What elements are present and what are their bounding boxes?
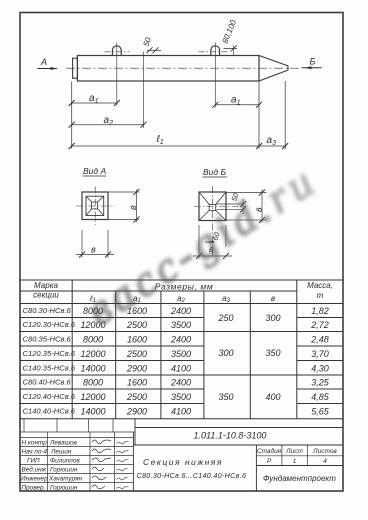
svg-text:1: 1	[293, 458, 297, 465]
svg-text:Вид А: Вид А	[83, 166, 106, 176]
small dim 50 right of centre	[217, 203, 245, 205]
svg-text:А: А	[40, 57, 47, 67]
watermark	[79, 155, 327, 335]
svg-text:Масса,: Масса,	[307, 281, 333, 290]
svg-text:1600: 1600	[127, 335, 147, 345]
svg-text:С120.30-НСв.6: С120.30-НСв.6	[23, 320, 76, 329]
svg-text:Инженер: Инженер	[21, 475, 48, 482]
svg-text:в: в	[91, 245, 96, 255]
svg-text:2,72: 2,72	[310, 320, 329, 330]
svg-text:2900: 2900	[126, 364, 147, 374]
svg-text:Б: Б	[310, 57, 316, 67]
dim labels	[89, 93, 276, 147]
extension taper start	[258, 82, 260, 149]
dim ticks	[69, 100, 289, 149]
svg-text:Хачатурян: Хачатурян	[48, 475, 83, 482]
svg-text:Фундаментпроект: Фундаментпроект	[263, 474, 336, 483]
svg-text:400: 400	[265, 392, 280, 402]
svg-text:Горюшин: Горюшин	[50, 484, 78, 491]
header texts	[33, 281, 333, 304]
right section	[255, 445, 257, 491]
svg-text:С140.40-НСв.6: С140.40-НСв.6	[23, 407, 76, 416]
svg-text:m: m	[317, 291, 324, 300]
TABLE	[20, 280, 343, 419]
svg-text:4,85: 4,85	[311, 392, 330, 402]
svg-text:2500: 2500	[126, 349, 147, 359]
svg-text:Вед.инж: Вед.инж	[22, 465, 47, 473]
svg-text:5,65: 5,65	[311, 407, 330, 417]
svg-text:Марка: Марка	[34, 281, 58, 290]
svg-text:2400: 2400	[170, 335, 191, 345]
svg-text:2500: 2500	[126, 320, 147, 330]
dim 50 at loop1	[142, 36, 161, 128]
svg-text:С120.40-НСв.6: С120.40-НСв.6	[23, 392, 76, 401]
extension tip	[284, 81, 286, 149]
dim a1 left	[72, 102, 117, 104]
svg-text:Листов: Листов	[312, 448, 337, 455]
svg-text:С140.35-НСв.6: С140.35-НСв.6	[23, 364, 76, 373]
svg-text:3500: 3500	[171, 349, 191, 359]
left roles and names	[21, 439, 83, 491]
svg-text:Горюшин: Горюшин	[50, 466, 78, 473]
svg-text:Стадия: Стадия	[257, 447, 282, 455]
svg-text:8000: 8000	[83, 335, 103, 345]
svg-text:2400: 2400	[170, 378, 191, 388]
dim a2	[72, 124, 144, 126]
view arrow B	[302, 57, 322, 70]
svg-text:3,25: 3,25	[311, 378, 330, 388]
svg-text:2400: 2400	[170, 306, 191, 316]
dim l1 + a3	[72, 145, 286, 147]
pile head cap	[73, 58, 78, 78]
svg-text:4100: 4100	[171, 407, 191, 417]
svg-text:350: 350	[265, 348, 280, 358]
svg-text:Вид Б: Вид Б	[203, 167, 226, 177]
TITLE BLOCK	[20, 419, 343, 492]
left rows	[20, 437, 133, 439]
dim 80,100 at loop2	[221, 18, 239, 55]
svg-text:1.011.1-10.8-3100: 1.011.1-10.8-3100	[194, 431, 267, 441]
svg-text:3500: 3500	[171, 392, 191, 402]
data rows	[23, 306, 76, 416]
right dim b	[109, 191, 140, 193]
pile centerline	[66, 67, 301, 69]
svg-text:Секция нижняя: Секция нижняя	[143, 457, 223, 467]
svg-text:14000: 14000	[80, 364, 105, 374]
svg-text:3500: 3500	[171, 320, 191, 330]
svg-text:4,30: 4,30	[311, 364, 329, 374]
svg-text:С80.30-НСв.6...С140.40-НСв.6: С80.30-НСв.6...С140.40-НСв.6	[137, 471, 247, 480]
svg-text:350: 350	[218, 392, 233, 402]
svg-text:300: 300	[265, 313, 280, 323]
svg-text:2500: 2500	[126, 392, 147, 402]
svg-text:Нач.по-4: Нач.по-4	[22, 448, 48, 455]
svg-text:1600: 1600	[127, 378, 147, 388]
svg-text:С80.30-НСв.6: С80.30-НСв.6	[23, 306, 72, 315]
svg-text:Провер.: Провер.	[22, 484, 46, 491]
svg-text:8000: 8000	[83, 378, 103, 388]
svg-text:Левашов: Левашов	[49, 439, 78, 446]
svg-text:С80.35-НСв.6: С80.35-НСв.6	[23, 335, 72, 344]
pile tip taper	[259, 56, 288, 82]
svg-text:Филиппов: Филиппов	[50, 457, 80, 464]
svg-text:12000: 12000	[80, 349, 105, 359]
svg-text:Размеры, мм: Размеры, мм	[155, 282, 214, 292]
bottom dims	[198, 225, 200, 259]
svg-text:14000: 14000	[80, 407, 105, 417]
title block grid	[20, 419, 343, 491]
svg-text:Р: Р	[267, 458, 272, 465]
PILE SIDE VIEW	[66, 43, 301, 108]
svg-text:С120.35-НСв.6: С120.35-НСв.6	[23, 349, 76, 358]
stage table	[257, 447, 338, 465]
dimension lines below pile	[72, 81, 286, 149]
svg-text:Н.контр: Н.контр	[22, 439, 48, 446]
svg-text:Лешин: Лешин	[50, 448, 72, 455]
lifting loop 2	[211, 46, 220, 56]
svg-text:в: в	[128, 205, 138, 210]
VIEW A	[76, 166, 140, 258]
svg-text:в: в	[271, 294, 275, 303]
svg-text:12000: 12000	[80, 392, 105, 402]
svg-text:ГИП: ГИП	[27, 457, 40, 464]
svg-text:8000: 8000	[83, 306, 103, 316]
right dim b	[227, 192, 267, 194]
svg-text:Лист: Лист	[285, 448, 303, 455]
svg-text:250: 250	[217, 313, 233, 323]
bottom dim b	[81, 230, 83, 258]
svg-text:2900: 2900	[126, 407, 147, 417]
lifting loop 1	[112, 46, 121, 56]
svg-text:12000: 12000	[80, 320, 105, 330]
svg-text:секции: секции	[33, 291, 59, 300]
svg-text:300: 300	[218, 348, 233, 358]
svg-text:1600: 1600	[127, 306, 147, 316]
pile body	[77, 56, 259, 82]
svg-text:4: 4	[323, 458, 327, 465]
signatures	[92, 440, 129, 489]
svg-text:С80.40-НСв.6: С80.40-НСв.6	[23, 378, 72, 387]
svg-text:2,48: 2,48	[310, 335, 329, 345]
table grid	[20, 280, 343, 419]
view arrow A	[37, 57, 57, 70]
extension left end	[71, 82, 73, 149]
svg-text:3,70: 3,70	[311, 349, 329, 359]
dim a1 right	[215, 104, 259, 106]
svg-text:1,82: 1,82	[311, 306, 329, 316]
svg-text:4100: 4100	[171, 364, 191, 374]
VIEW B	[193, 167, 267, 259]
